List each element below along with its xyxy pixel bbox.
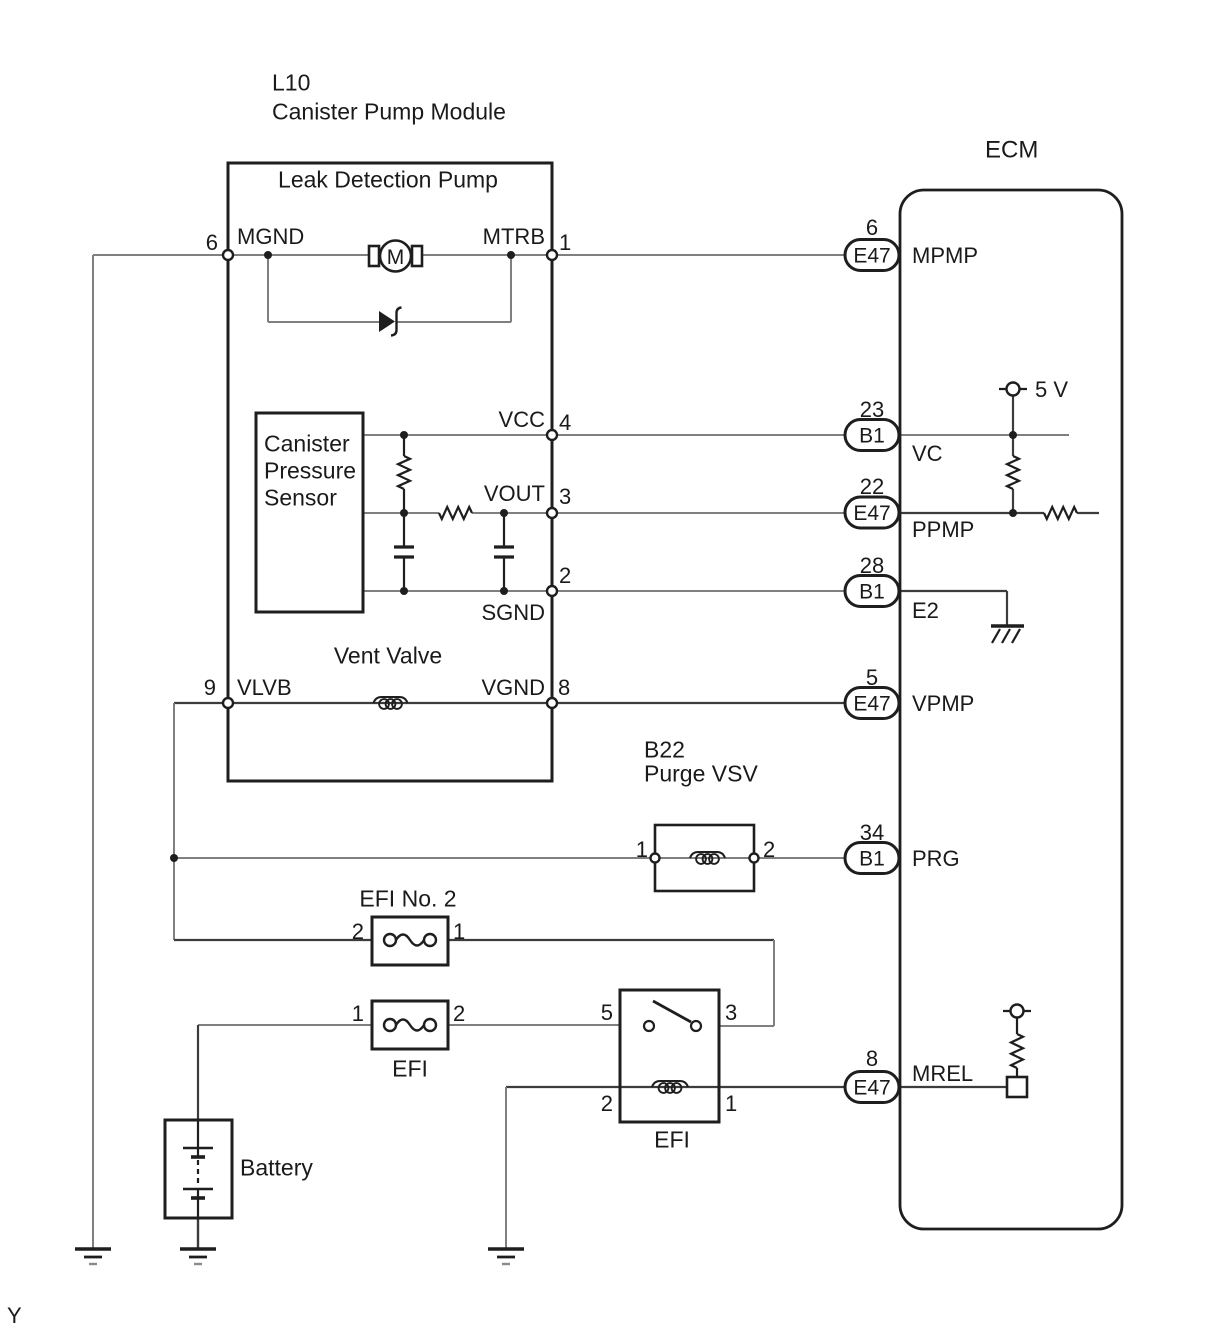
connector E47 pin 6 MPMP — [845, 240, 899, 271]
svg-text:5: 5 — [866, 665, 878, 690]
fuse box EFI No.2 — [372, 917, 448, 965]
svg-text:Leak Detection Pump: Leak Detection Pump — [278, 166, 498, 192]
svg-text:6: 6 — [866, 215, 878, 240]
junction MTRB — [507, 251, 515, 259]
canister pressure sensor box — [256, 413, 363, 612]
junction SGND right — [500, 587, 508, 595]
wire VC inside ECM — [900, 434, 1069, 436]
MREL pull-up supply symbol — [1003, 1010, 1031, 1012]
wire VLVB branch left — [174, 702, 228, 704]
svg-text:3: 3 — [725, 1000, 737, 1025]
wire 5V feed vertical — [1012, 395, 1014, 456]
wire VOUT net right — [472, 512, 899, 514]
wire PRG net row — [174, 857, 899, 859]
connector B1 pin 34 PRG — [845, 843, 899, 874]
wire VGND/VPMP net row — [228, 702, 899, 704]
connector B1 pin 23 VC — [845, 420, 899, 451]
junction VOUT left — [400, 509, 408, 517]
resistor VOUT series — [439, 507, 472, 519]
svg-text:1: 1 — [725, 1091, 737, 1116]
svg-text:1: 1 — [636, 837, 648, 862]
svg-text:E47: E47 — [853, 693, 890, 716]
svg-text:B1: B1 — [859, 425, 885, 448]
ground earth left — [75, 1247, 111, 1251]
svg-text:Canister Pump Module: Canister Pump Module — [272, 98, 506, 124]
wire VCC/VC net row — [363, 434, 899, 436]
svg-text:2: 2 — [763, 837, 775, 862]
wire relay pin 2 to ground run — [506, 1086, 620, 1088]
fuse box EFI — [372, 1001, 448, 1049]
svg-text:ECM: ECM — [985, 137, 1038, 164]
inductor vent valve coil — [374, 697, 408, 703]
svg-text:EFI No. 2: EFI No. 2 — [359, 885, 456, 911]
svg-text:3: 3 — [559, 484, 571, 509]
canister pump module box (Leak Detection Pump) — [228, 163, 552, 781]
inductor relay coil — [652, 1081, 688, 1087]
wire EFI No.2 row right — [448, 939, 774, 941]
svg-text:E2: E2 — [912, 598, 939, 623]
svg-text:Battery: Battery — [240, 1154, 313, 1180]
battery box — [165, 1120, 232, 1218]
MREL driver square — [1007, 1077, 1027, 1097]
connector B1 pin 28 E2 — [845, 576, 899, 607]
svg-text:5: 5 — [601, 1000, 613, 1025]
fuse EFI element — [384, 1019, 396, 1031]
wire relay coil interior — [620, 1086, 719, 1088]
wire battery bottom ground lead — [197, 1218, 199, 1249]
svg-text:1: 1 — [453, 919, 465, 944]
pin 9 VLVB terminal — [223, 698, 233, 708]
junction VOUT right — [500, 509, 508, 517]
svg-text:B1: B1 — [859, 848, 885, 871]
motor M leak detection pump — [369, 246, 379, 266]
svg-text:M: M — [387, 246, 405, 269]
inductor purge VSV coil — [690, 852, 725, 858]
junction MGND — [264, 251, 272, 259]
svg-text:4: 4 — [559, 410, 571, 435]
purge VSV pin 2 terminal — [750, 854, 759, 863]
svg-text:1: 1 — [352, 1001, 364, 1026]
wire left ground drop — [92, 255, 94, 1249]
svg-text:E47: E47 — [853, 245, 890, 268]
wire battery feed drop — [197, 1025, 199, 1120]
wire relay pin 3 stub — [719, 1025, 774, 1027]
svg-text:1: 1 — [559, 230, 571, 255]
svg-text:2: 2 — [352, 919, 364, 944]
svg-text:34: 34 — [860, 820, 884, 845]
svg-text:MTRB: MTRB — [483, 224, 545, 249]
wire diode loop right riser — [510, 255, 512, 322]
svg-text:VCC: VCC — [499, 407, 546, 432]
svg-text:VLVB: VLVB — [237, 675, 292, 700]
svg-text:22: 22 — [860, 474, 884, 499]
svg-text:Pressure: Pressure — [264, 457, 356, 483]
capacitor sensor left — [403, 513, 405, 547]
relay switch contacts — [644, 1021, 654, 1031]
ground earth relay — [488, 1247, 524, 1251]
svg-text:Canister: Canister — [264, 430, 350, 456]
wire relay ground drop — [505, 1087, 507, 1249]
wire diode loop bottom left — [268, 321, 379, 323]
pin 1 MTRB terminal — [547, 250, 557, 260]
svg-text:Vent Valve: Vent Valve — [334, 642, 442, 668]
purge VSV pin 1 terminal — [651, 854, 660, 863]
resistor sensor pull-up — [403, 435, 405, 456]
svg-text:Purge VSV: Purge VSV — [644, 760, 758, 786]
junction VC — [1009, 431, 1017, 439]
5V supply symbol — [999, 388, 1027, 390]
svg-text:2: 2 — [453, 1001, 465, 1026]
wire VLVB vertical drop — [173, 703, 175, 940]
svg-text:E47: E47 — [853, 1077, 890, 1100]
pin 8 VGND terminal — [547, 698, 557, 708]
svg-text:23: 23 — [860, 397, 884, 422]
ground earth battery — [180, 1247, 216, 1251]
svg-text:8: 8 — [558, 675, 570, 700]
ground chassis E2 — [991, 624, 1024, 627]
svg-text:B22: B22 — [644, 736, 685, 762]
connector E47 pin 8 MREL — [845, 1072, 899, 1103]
svg-text:Y: Y — [7, 1303, 22, 1328]
pin 4 VCC terminal — [547, 430, 557, 440]
wire MGND/MPMP net row — [93, 254, 899, 256]
capacitor sensor right — [503, 513, 505, 547]
junction VCC — [400, 431, 408, 439]
pin 3 VOUT terminal — [547, 508, 557, 518]
battery cells — [197, 1120, 199, 1148]
wire VC-PPMP resistor lower lead — [1012, 489, 1014, 513]
junction SGND left — [400, 587, 408, 595]
svg-text:MPMP: MPMP — [912, 243, 978, 268]
svg-text:2: 2 — [601, 1091, 613, 1116]
pin 6 MGND terminal — [223, 250, 233, 260]
svg-text:8: 8 — [866, 1046, 878, 1071]
svg-text:VC: VC — [912, 441, 943, 466]
junction PRG branch — [170, 854, 178, 862]
resistor ECM PPMP series — [1044, 507, 1077, 519]
fuse EFI No.2 element — [384, 934, 396, 946]
svg-text:5 V: 5 V — [1035, 377, 1068, 402]
resistor MREL pull-up — [1016, 1017, 1018, 1034]
svg-text:2: 2 — [559, 563, 571, 588]
wire MREL row relay to ECM — [719, 1086, 1007, 1088]
svg-text:EFI: EFI — [654, 1126, 690, 1152]
svg-text:VPMP: VPMP — [912, 691, 974, 716]
pin 2 SGND terminal — [547, 586, 557, 596]
svg-text:E47: E47 — [853, 502, 890, 525]
connector E47 pin 5 VPMP — [845, 688, 899, 719]
wire battery to EFI fuse — [198, 1024, 372, 1026]
svg-text:VOUT: VOUT — [484, 481, 545, 506]
wire diode loop bottom right — [396, 321, 511, 323]
svg-text:9: 9 — [204, 675, 216, 700]
svg-text:EFI: EFI — [392, 1055, 428, 1081]
ECM box — [900, 190, 1122, 1229]
svg-text:MGND: MGND — [237, 224, 304, 249]
svg-text:SGND: SGND — [481, 600, 545, 625]
wire EFI fuse to relay pin 5 — [448, 1024, 620, 1026]
connector E47 pin 22 PPMP — [845, 497, 899, 528]
junction PPMP — [1009, 509, 1017, 517]
wire SGND net row — [363, 590, 899, 592]
svg-text:6: 6 — [206, 230, 218, 255]
svg-text:B1: B1 — [859, 581, 885, 604]
svg-text:VGND: VGND — [481, 675, 545, 700]
svg-text:PRG: PRG — [912, 846, 960, 871]
svg-text:PPMP: PPMP — [912, 517, 974, 542]
relay box EFI — [620, 990, 719, 1122]
wire riser to relay pin 3 — [773, 940, 775, 1026]
wire diode loop left drop — [267, 255, 269, 322]
wire PPMP inside ECM left — [900, 512, 1044, 514]
wire EFI No.2 row left — [174, 939, 372, 941]
wire PPMP inside ECM tail — [1077, 512, 1099, 514]
svg-text:Sensor: Sensor — [264, 484, 337, 510]
svg-text:MREL: MREL — [912, 1061, 973, 1086]
wire E2 inside ECM — [900, 590, 1007, 592]
purge VSV box B22 — [655, 825, 754, 891]
diode across motor — [379, 311, 395, 332]
resistor ECM VC-PPMP — [1007, 456, 1019, 489]
svg-text:L10: L10 — [272, 69, 310, 95]
svg-text:28: 28 — [860, 553, 884, 578]
wire VOUT net left — [363, 512, 439, 514]
